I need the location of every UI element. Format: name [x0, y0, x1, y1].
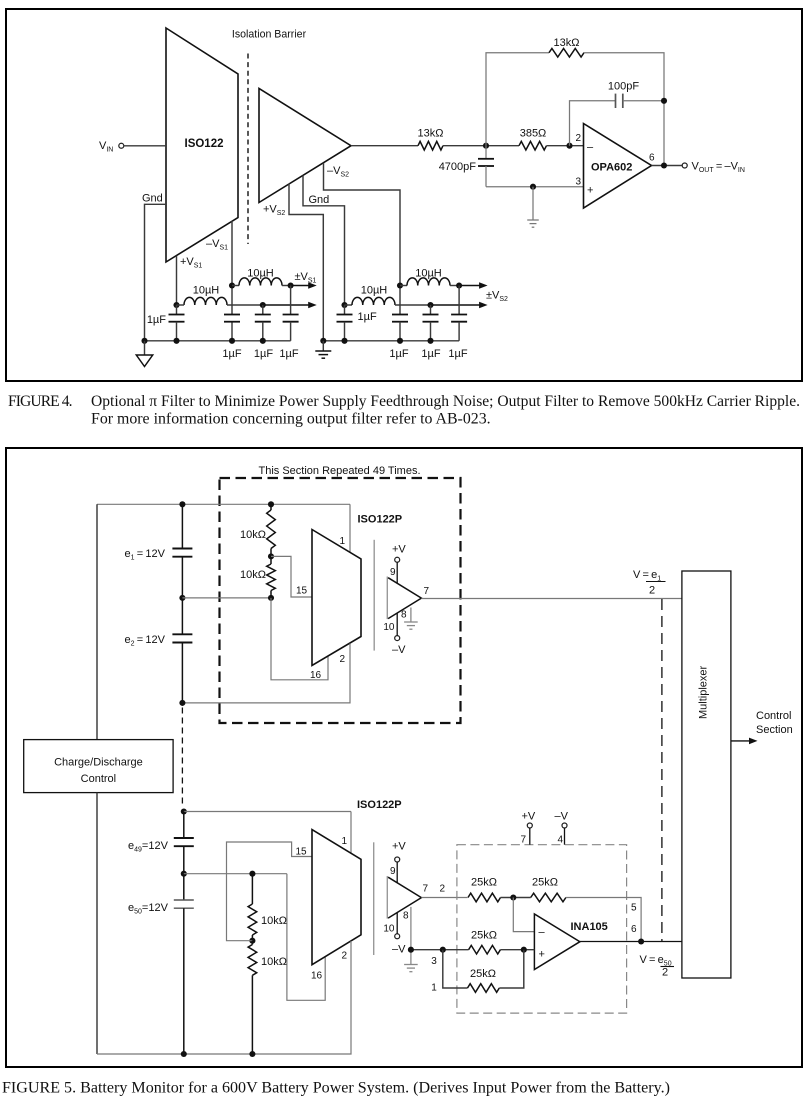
wire pin1 drop — [349, 504, 351, 552]
node battery e1 top — [179, 501, 185, 507]
svg-text:Gnd: Gnd — [142, 193, 163, 205]
svg-text:1µF: 1µF — [358, 311, 377, 323]
wire R10 to +input node — [499, 950, 524, 988]
svg-text:10kΩ: 10kΩ — [240, 569, 266, 581]
wire mid rail 2 to divider and pin16 — [184, 873, 287, 875]
svg-text:9: 9 — [390, 866, 396, 877]
svg-text:1: 1 — [341, 836, 347, 847]
node feedback junction — [510, 894, 516, 900]
resistor R3 13k feedback — [549, 48, 584, 57]
svg-text:2: 2 — [575, 133, 581, 144]
svg-text:–V: –V — [392, 644, 406, 656]
svg-text:16: 16 — [310, 670, 322, 681]
multiplexer box — [682, 571, 731, 978]
capacitor C10 100pF — [615, 94, 617, 108]
svg-text:25kΩ: 25kΩ — [471, 929, 497, 941]
svg-text:6: 6 — [649, 153, 655, 164]
junction dots on bus 2 — [320, 338, 326, 344]
dashed line repeated channels — [661, 599, 663, 941]
resistor R4 10k (lower) — [267, 564, 276, 591]
wire Gnd pin to ground bus — [145, 204, 167, 340]
inductor L3 10uH — [345, 304, 353, 306]
wire pin 15 path (lower) — [227, 842, 313, 941]
isolation amplifier U1 ISO122 input trapezoid — [166, 28, 238, 262]
wire pin 15 from divider — [271, 556, 312, 597]
svg-text:Control: Control — [756, 710, 791, 722]
svg-text:10kΩ: 10kΩ — [261, 915, 287, 927]
junction dots on bus 1 — [141, 338, 147, 344]
node inverting input junction — [566, 143, 572, 149]
capacitor C7 1uF — [430, 305, 432, 315]
wire pin 2 drop to bottom rail — [97, 941, 351, 1054]
svg-text:+V: +V — [522, 811, 536, 823]
svg-text:+: + — [539, 949, 545, 961]
resistor R2 385 ohm — [519, 141, 547, 150]
capacitor C4 1uF (from L2 output) — [290, 286, 292, 315]
capacitor C3 1uF — [262, 305, 264, 315]
inductor L4 10uH — [400, 285, 407, 287]
svg-text:2: 2 — [341, 951, 347, 962]
ground bus section 1 — [145, 340, 291, 342]
wire mid rail to divider — [182, 597, 271, 599]
resistor R5 10k — [251, 874, 253, 904]
svg-text:10µH: 10µH — [415, 268, 442, 280]
wire L2 to upper +/-VS1 arrow — [282, 285, 291, 287]
node +input junction — [521, 947, 527, 953]
node output/feedback junction — [638, 938, 644, 944]
svg-text:25kΩ: 25kΩ — [532, 877, 558, 889]
inductor L1 10uH — [184, 297, 227, 305]
svg-text:7: 7 — [424, 586, 430, 597]
svg-text:+V: +V — [392, 544, 406, 556]
isolation barrier bar U4 — [373, 842, 375, 955]
resistor R3 10k (upper) — [270, 504, 272, 510]
node R4 bottom — [268, 595, 274, 601]
op-amp U5 INA105 triangle — [534, 914, 580, 970]
node R3 top — [268, 501, 274, 507]
svg-text:6: 6 — [631, 924, 637, 935]
wire Gnd2 pin down to section2 filter node — [303, 175, 345, 305]
svg-text:V = e1: V = e1 — [633, 569, 661, 583]
isolation amplifier U3 ISO122P trapezoid — [312, 530, 361, 666]
svg-text:e49=12V: e49=12V — [128, 840, 169, 854]
figure 5 border frame — [6, 448, 802, 1067]
svg-text:Optional π Filter to Minimize: Optional π Filter to Minimize Power Supp… — [91, 393, 800, 410]
svg-text:10µH: 10µH — [247, 268, 274, 280]
wire R10 branch — [443, 950, 468, 988]
wire left bus below control box — [96, 793, 98, 1054]
svg-text:–V: –V — [392, 944, 406, 956]
output buffer triangle U3 — [386, 577, 388, 620]
wire -V to pin 10 (U4) — [396, 913, 398, 935]
svg-text:e50=12V: e50=12V — [128, 902, 169, 916]
svg-text:2: 2 — [339, 654, 345, 665]
isolation barrier bar U3 — [373, 540, 375, 651]
svg-text:13kΩ: 13kΩ — [418, 128, 444, 140]
svg-text:Charge/Discharge: Charge/Discharge — [54, 757, 143, 769]
wire +V to pin 9 — [396, 562, 398, 583]
capacitor C10 100pF wire left — [570, 101, 616, 146]
battery e50 12V — [183, 874, 185, 900]
isolation amplifier U4 ISO122P trapezoid — [312, 830, 361, 965]
resistor R6 10k — [251, 941, 253, 945]
capacitor C8 1uF (from L4 output) — [458, 286, 460, 315]
inductor L2 10uH — [232, 285, 239, 287]
wire op-amp output — [652, 165, 683, 167]
svg-text:16: 16 — [311, 971, 323, 982]
node bottom rail / R6 — [249, 1051, 255, 1057]
wire top rail 2 — [184, 811, 351, 813]
node junction +VS1/L1/C1 — [173, 302, 179, 308]
wire +VS1 pin down to filter — [176, 256, 178, 305]
svg-text:10kΩ: 10kΩ — [261, 956, 287, 968]
svg-text:3: 3 — [575, 177, 581, 188]
svg-text:Gnd: Gnd — [309, 194, 330, 206]
node output junction — [661, 162, 667, 168]
svg-text:–V: –V — [555, 811, 569, 823]
wire pin 16 loop (lower) — [287, 874, 325, 1001]
node L4 output junction — [456, 282, 462, 288]
node R9 left junction — [440, 947, 446, 953]
svg-text:7: 7 — [520, 835, 526, 846]
battery e2 12V — [181, 598, 183, 634]
svg-text:This Section Repeated 49 Times: This Section Repeated 49 Times. — [258, 465, 420, 477]
node junction Gnd2/L3/C5 — [341, 302, 347, 308]
svg-text:1µF: 1µF — [222, 348, 241, 360]
op-amp U2 OPA602 triangle — [584, 124, 652, 209]
svg-text:7: 7 — [423, 883, 429, 894]
dashed repeated-section box — [220, 478, 461, 723]
svg-text:8: 8 — [401, 610, 407, 621]
node e49 top — [181, 808, 187, 814]
wire +V to pin 9 (U4) — [396, 862, 398, 883]
wire ISO122 output to 13k resistor — [351, 145, 418, 147]
resistor R8 25k (feedback) — [531, 893, 566, 902]
svg-text:2: 2 — [649, 585, 655, 597]
wire -V to pin 10 — [396, 613, 398, 636]
wire pin1 drop (lower U4) — [350, 812, 352, 854]
svg-text:25kΩ: 25kΩ — [471, 877, 497, 889]
battery e49 12V — [183, 812, 185, 839]
svg-text:25kΩ: 25kΩ — [470, 968, 496, 980]
svg-text:1µF: 1µF — [279, 348, 298, 360]
wire -V rail from pin 8 to +input — [411, 949, 469, 951]
svg-text:FIGURE 5. Battery Monitor for: FIGURE 5. Battery Monitor for a 600V Bat… — [2, 1080, 670, 1097]
wire U4 output (pin7) to INA105 input — [421, 897, 467, 899]
svg-text:ISO122P: ISO122P — [357, 799, 402, 811]
isolation barrier dashed line — [247, 54, 249, 245]
svg-text:10: 10 — [383, 924, 395, 935]
ground bus section 2 — [323, 340, 459, 342]
wire +VS2 pin to section2 ground bus — [289, 184, 323, 341]
resistor R7 25k (input) — [468, 893, 501, 902]
node C3 top junction — [260, 302, 266, 308]
wire non-inverting input line — [486, 186, 584, 188]
output amplifier triangle of ISO122 — [259, 89, 351, 203]
wire feedback right side down to output — [584, 53, 664, 166]
pin 8 ground stub — [410, 608, 412, 622]
svg-text:For more information concernin: For more information concerning output f… — [91, 411, 491, 428]
wire to node A — [443, 145, 519, 147]
svg-text:Multiplexer: Multiplexer — [698, 665, 710, 719]
svg-text:4: 4 — [557, 835, 563, 846]
node feedback/C10 junction — [661, 98, 667, 104]
svg-text:INA105: INA105 — [571, 921, 608, 933]
output buffer triangle U4 — [386, 876, 388, 919]
svg-text:1µF: 1µF — [448, 348, 467, 360]
svg-text:2: 2 — [440, 883, 446, 894]
node divider junction (lower) — [249, 938, 255, 944]
node mid rail e1/e2 — [179, 595, 185, 601]
wire R7 to feedback node — [501, 897, 531, 899]
svg-text:2: 2 — [662, 967, 668, 979]
capacitor C1 1uF — [176, 305, 178, 315]
node A junction (4700pF / feedback) — [483, 143, 489, 149]
node divider junction — [268, 553, 274, 559]
resistor R1 13k (series) — [418, 141, 443, 150]
svg-text:ISO122: ISO122 — [185, 138, 224, 150]
wire feedback to output sense (pin 5) — [566, 898, 641, 942]
wire INA105 output to multiplexer — [580, 941, 682, 943]
svg-text:Section: Section — [756, 724, 793, 736]
wire -VS2 pin down to section2 filter — [324, 163, 401, 315]
svg-text:Isolation Barrier: Isolation Barrier — [232, 29, 307, 41]
svg-text:Control: Control — [81, 773, 116, 785]
svg-text:1µF: 1µF — [389, 348, 408, 360]
battery e1 12V — [181, 504, 183, 548]
svg-text:100pF: 100pF — [608, 81, 639, 93]
svg-text:15: 15 — [296, 586, 308, 597]
node mid rail e49/e50 — [181, 871, 187, 877]
capacitor C2 1uF (on -VS1 line) — [224, 314, 240, 316]
svg-text:–: – — [539, 927, 546, 939]
ground symbol (triangle) — [144, 341, 146, 355]
svg-text:8: 8 — [403, 911, 409, 922]
svg-text:4700pF: 4700pF — [439, 161, 477, 173]
node R5 top — [249, 871, 255, 877]
svg-text:OPA602: OPA602 — [591, 162, 632, 174]
svg-text:385Ω: 385Ω — [520, 128, 547, 140]
wire multiplexer output arrow — [731, 740, 751, 742]
svg-text:13kΩ: 13kΩ — [554, 37, 580, 49]
svg-text:10: 10 — [383, 622, 395, 633]
wire L1 output line with arrow (lower +/-VS1 rail) — [227, 304, 263, 306]
svg-text:10µH: 10µH — [193, 285, 220, 297]
svg-text:9: 9 — [390, 567, 396, 578]
node L2 output junction — [288, 282, 294, 288]
resistor R9 25k (+input) — [469, 945, 501, 954]
svg-text:ISO122P: ISO122P — [358, 514, 403, 526]
svg-text:+V: +V — [392, 840, 406, 852]
svg-text:1: 1 — [431, 982, 437, 993]
INA105 dashed box — [457, 845, 627, 1013]
node C7 top junction — [427, 302, 433, 308]
wire R2 to op-amp inverting input — [547, 145, 584, 147]
earth ground symbol (op-amp +input) — [527, 219, 539, 221]
svg-text:1µF: 1µF — [421, 348, 440, 360]
figure 4 border frame — [6, 9, 802, 381]
svg-text:10µH: 10µH — [361, 285, 388, 297]
wire C10 right to feedback node — [623, 100, 664, 102]
wire L4 to upper +/-VS2 arrow — [450, 285, 459, 287]
svg-text:15: 15 — [296, 847, 308, 858]
capacitor C9 4700pF — [485, 146, 487, 159]
node junction -VS1/L2 — [229, 282, 235, 288]
wire inverting input — [513, 898, 534, 932]
wire VIN to ISO122 input — [124, 145, 166, 147]
output terminal circle — [682, 163, 687, 168]
node e2 bottom — [179, 700, 185, 706]
node junction -VS2/L4 — [397, 282, 403, 288]
wire top rail e1+ — [97, 503, 350, 505]
svg-text:3: 3 — [431, 956, 437, 967]
pin 8 stub to -V rail and ground (U4) — [410, 907, 412, 950]
svg-text:1µF: 1µF — [147, 314, 166, 326]
svg-text:10kΩ: 10kΩ — [240, 529, 266, 541]
svg-text:FIGURE 4.: FIGURE 4. — [8, 393, 73, 410]
wire pin 16 loop — [271, 598, 328, 680]
svg-text:+: + — [587, 185, 593, 197]
feedback wire with 13k resistor R3 — [486, 53, 549, 146]
svg-text:1: 1 — [339, 536, 345, 547]
wire -VS1 pin down through filter — [231, 221, 233, 315]
wire pin 2 rail to e2 bottom — [182, 644, 350, 703]
resistor R10 25k (ground sense) — [468, 984, 500, 993]
node pin8/-V rail junction — [408, 947, 414, 953]
svg-text:–: – — [587, 142, 594, 154]
wire U3 output rail to multiplexer — [421, 598, 682, 600]
node ground stub junction — [530, 184, 536, 190]
wire to ground — [532, 187, 534, 220]
earth ground symbol section 2 — [322, 341, 324, 351]
charge/discharge control box — [24, 740, 173, 793]
capacitor C6 1uF (on -VS2 line) — [392, 314, 408, 316]
svg-text:1µF: 1µF — [254, 348, 273, 360]
capacitor C5 1uF — [344, 305, 346, 315]
wire L3 output line with arrow (lower +/-VS2 rail) — [395, 304, 431, 306]
wire left vertical bus (to charge control) — [96, 504, 98, 739]
svg-text:5: 5 — [631, 902, 637, 913]
node bottom rail / e50 — [181, 1051, 187, 1057]
dashed continuation wire — [181, 708, 183, 807]
